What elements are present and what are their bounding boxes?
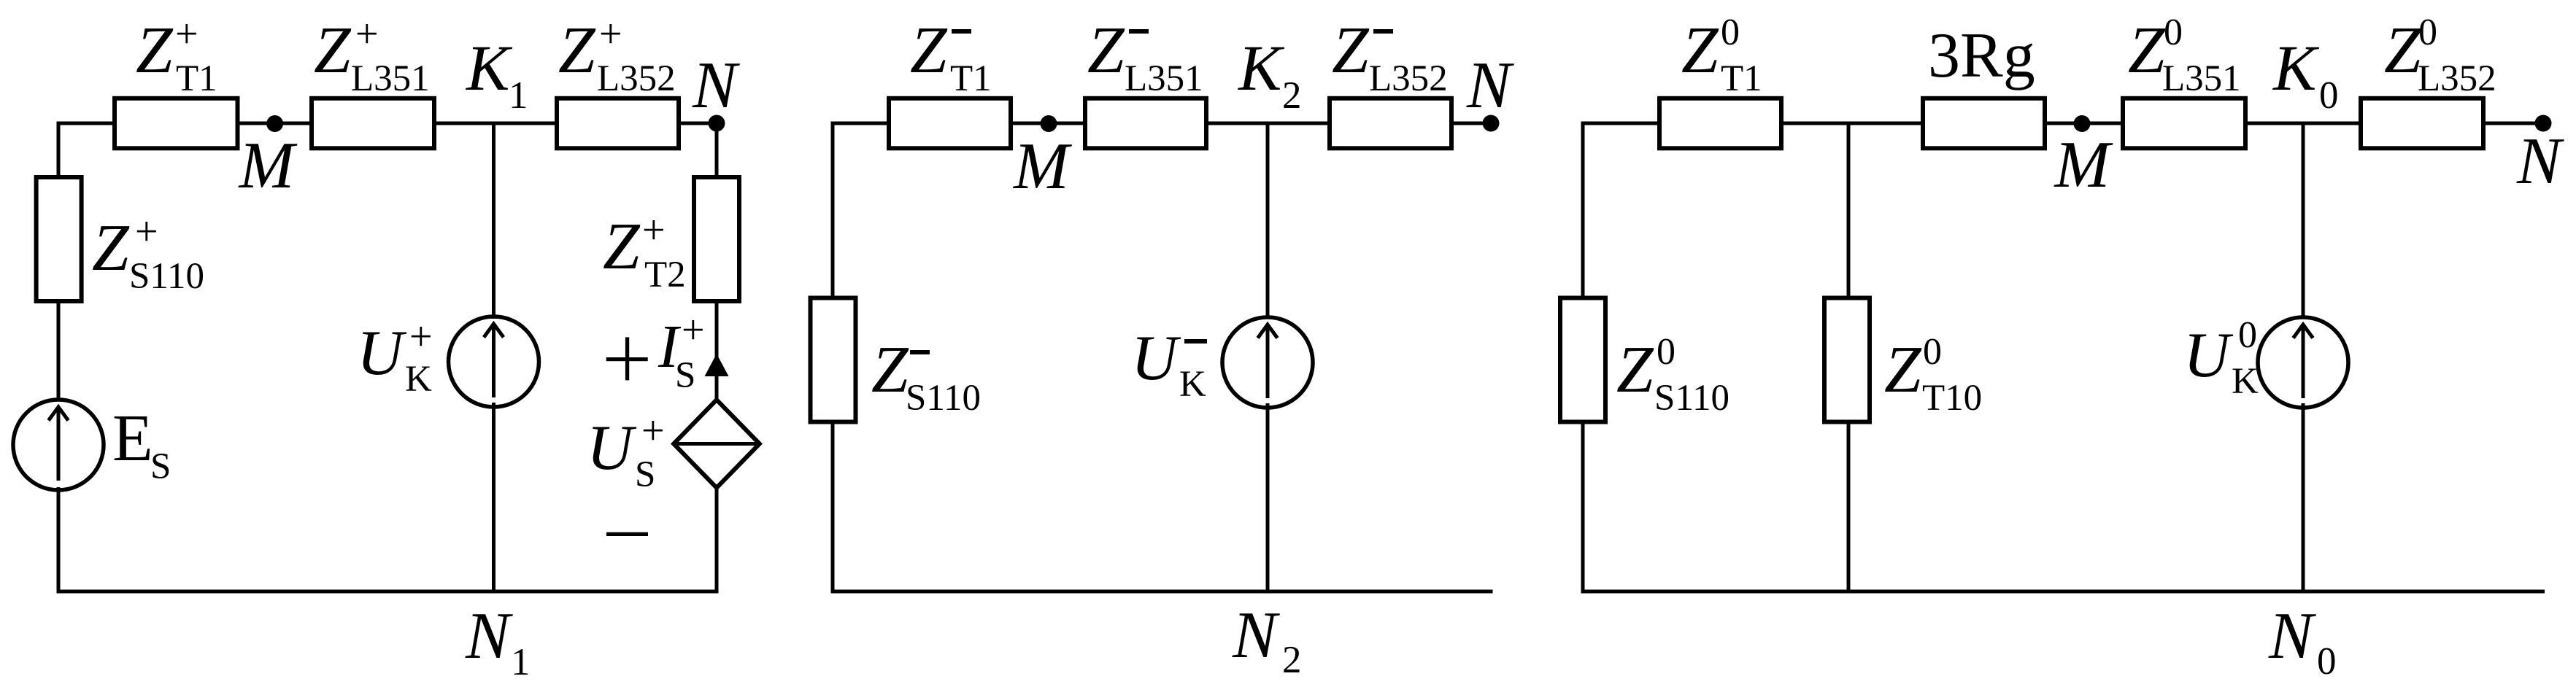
svg-text:Z: Z xyxy=(871,333,909,406)
label U_K^- xyxy=(1131,323,1207,405)
label Z_S110^0 xyxy=(1616,331,1729,419)
resistor ZL351-0 box xyxy=(2123,98,2245,149)
svg-text:Z: Z xyxy=(92,211,130,284)
label K_0 xyxy=(2272,33,2339,117)
wire US+ to bottom rail xyxy=(715,489,719,594)
wire ZS110+ to Es source xyxy=(57,302,61,401)
wire ZT10 branch vertical xyxy=(1847,123,1851,299)
resistor ZS110-0 box xyxy=(1560,298,1605,422)
svg-text:+: + xyxy=(135,209,158,255)
label N_1 reference node xyxy=(465,599,531,683)
resistor ZL351+ box xyxy=(312,98,434,149)
svg-text:L351: L351 xyxy=(2162,58,2241,99)
source UK0 circle with up arrow xyxy=(2258,317,2348,408)
svg-text:Z: Z xyxy=(603,209,641,283)
wire Es to bottom rail xyxy=(57,487,61,594)
resistor ZL351- box xyxy=(1085,98,1206,149)
svg-text:N: N xyxy=(465,599,513,672)
svg-text:K: K xyxy=(1237,33,1285,104)
label Z_S110^+ xyxy=(92,209,204,297)
svg-text:S: S xyxy=(675,355,695,396)
svg-text:1: 1 xyxy=(509,74,528,117)
label E_S xyxy=(112,401,171,487)
wire ZT1-0 to 3Rg through ZT10 junction xyxy=(1779,122,1925,125)
svg-text:S110: S110 xyxy=(129,256,204,297)
label Z_T1^0 xyxy=(1681,12,1762,99)
node M junction dot xyxy=(266,115,283,132)
wire UK0 to bottom rail xyxy=(2302,403,2305,594)
svg-text:+: + xyxy=(355,12,379,57)
wire ZS110-0 to bottom rail xyxy=(1581,422,1585,594)
svg-text:0: 0 xyxy=(2238,314,2257,356)
svg-text:3Rg: 3Rg xyxy=(1928,20,2035,91)
wire ZT1+ to ZL351+ through node M xyxy=(236,122,314,125)
svg-text:T2: T2 xyxy=(644,255,686,295)
svg-text:Z: Z xyxy=(1616,333,1654,406)
svg-text:+: + xyxy=(175,12,198,57)
svg-text:K: K xyxy=(1179,364,1206,405)
svg-text:K: K xyxy=(405,359,432,400)
label U_K^0 xyxy=(2183,314,2259,402)
svg-text:+: + xyxy=(599,12,622,57)
svg-text:U: U xyxy=(587,413,637,484)
svg-text:U: U xyxy=(2183,320,2234,391)
svg-text:0: 0 xyxy=(2164,12,2183,53)
wire K2 branch vertical xyxy=(1266,123,1270,319)
label Z_T10^0 xyxy=(1884,331,1982,419)
label minus polarity of US+ xyxy=(606,532,648,536)
label +I_S^+ current annotation xyxy=(606,308,705,396)
svg-text:Z: Z xyxy=(910,13,948,87)
svg-text:0: 0 xyxy=(1657,331,1675,373)
svg-text:L352: L352 xyxy=(597,58,676,99)
wire top rail segment (right) xyxy=(1581,122,1662,125)
svg-text:K: K xyxy=(2232,361,2259,402)
svg-text:0: 0 xyxy=(2319,74,2339,117)
wire 3Rg to node M (right) xyxy=(2043,122,2125,125)
svg-text:L352: L352 xyxy=(2418,58,2496,99)
svg-text:T10: T10 xyxy=(1922,378,1982,419)
wire ZS110- to bottom rail xyxy=(831,422,835,594)
wire ZL351-0 to ZL352-0 through node K0 xyxy=(2243,122,2363,125)
svg-text:2: 2 xyxy=(1282,74,1302,117)
node N terminal dot (left) xyxy=(709,115,725,132)
label Z_T1^+ xyxy=(136,12,217,99)
wire left-branch vertical (middle circuit) xyxy=(831,122,835,300)
label Z_L351^- xyxy=(1087,13,1203,99)
svg-text:E: E xyxy=(112,401,153,475)
svg-text:M: M xyxy=(1012,129,1072,203)
svg-text:0: 0 xyxy=(2418,12,2437,53)
label Z_T1^- xyxy=(910,13,992,99)
node M junction dot (middle) xyxy=(1041,115,1057,132)
label N_0 reference node xyxy=(2268,599,2337,683)
wire left-branch vertical (right circuit) xyxy=(1581,122,1585,300)
label K_1 xyxy=(465,33,528,117)
wire bottom rail (right circuit) xyxy=(1581,590,2545,594)
wire left-branch top vertical (Es branch) xyxy=(57,122,61,179)
svg-text:Z: Z xyxy=(558,13,596,87)
svg-text:Z: Z xyxy=(1884,333,1922,406)
label Z_L351^+ xyxy=(314,12,430,99)
svg-text:T1: T1 xyxy=(1721,58,1762,99)
wire top rail segment (middle) xyxy=(831,122,892,125)
wire ZL352+ to node N xyxy=(676,122,718,125)
wire ZT1- to ZL351- through node M xyxy=(1009,122,1087,125)
label Z_T2^+ xyxy=(603,208,686,295)
node N terminal dot (right) xyxy=(2535,115,2552,132)
svg-text:0: 0 xyxy=(1923,331,1942,373)
label Z_L352^- xyxy=(1332,13,1448,99)
resistor ZT1- box xyxy=(889,98,1011,149)
svg-text:+: + xyxy=(642,208,666,253)
label Z_L351^0 xyxy=(2128,12,2241,99)
wire bottom rail (left circuit) xyxy=(57,590,719,594)
svg-text:0: 0 xyxy=(1721,12,1740,53)
wire ZL351+ to ZL352+ through node K1 xyxy=(432,122,559,125)
svg-text:K: K xyxy=(465,33,513,104)
svg-text:1: 1 xyxy=(511,641,531,683)
svg-text:S: S xyxy=(635,454,655,495)
resistor ZT1+ box xyxy=(115,98,238,149)
resistor ZL352+ box xyxy=(557,98,679,149)
svg-text:Z: Z xyxy=(2384,13,2422,87)
resistor ZT1-0 box xyxy=(1659,98,1781,149)
label Z_L352^+ xyxy=(558,12,676,99)
svg-text:T1: T1 xyxy=(176,58,217,99)
svg-text:L352: L352 xyxy=(1369,58,1448,99)
resistor ZS110+ box xyxy=(36,177,82,301)
svg-text:N: N xyxy=(692,48,740,122)
svg-text:U: U xyxy=(1131,323,1181,394)
wire ZT2+ to US+ source with IS arrow xyxy=(715,302,719,398)
resistor 3Rg box xyxy=(1923,98,2045,149)
wire ZL351- to ZL352- through node K2 xyxy=(1204,122,1332,125)
wire UK+ to bottom rail xyxy=(492,403,495,594)
source UK+ circle with up arrow xyxy=(449,317,539,407)
label U_K^+ xyxy=(357,314,433,400)
svg-text:N: N xyxy=(1466,48,1514,122)
svg-text:N: N xyxy=(2268,599,2316,672)
svg-text:Z: Z xyxy=(2128,13,2166,87)
svg-text:N: N xyxy=(2516,124,2564,198)
dependent source US+ diamond xyxy=(674,400,760,488)
label Z_L352^0 xyxy=(2384,12,2496,99)
svg-text:Z: Z xyxy=(136,13,174,87)
svg-text:S110: S110 xyxy=(906,378,981,419)
wire K0 branch vertical xyxy=(2302,123,2305,319)
source ES circle with up arrow xyxy=(13,400,104,490)
svg-text:+: + xyxy=(641,408,665,454)
source UK- circle with up arrow xyxy=(1222,317,1313,408)
svg-text:0: 0 xyxy=(2317,640,2337,683)
label Z_S110^- xyxy=(871,333,981,419)
svg-text:M: M xyxy=(2054,128,2113,201)
arrowhead I_S current direction xyxy=(705,354,729,376)
svg-text:Z: Z xyxy=(1087,13,1125,87)
svg-text:K: K xyxy=(2272,33,2320,104)
svg-text:+: + xyxy=(409,314,433,360)
svg-text:Z: Z xyxy=(1332,13,1370,87)
resistor ZT2+ box xyxy=(694,177,739,301)
svg-text:S: S xyxy=(150,446,171,487)
svg-text:Z: Z xyxy=(314,13,352,87)
svg-text:T1: T1 xyxy=(950,58,992,99)
svg-text:M: M xyxy=(238,128,298,202)
wire N down to ZT2+ xyxy=(715,123,719,178)
svg-text:2: 2 xyxy=(1282,639,1302,681)
svg-text:L351: L351 xyxy=(351,58,430,99)
label U_S^+ xyxy=(587,408,665,495)
wire ZT10 to bottom rail xyxy=(1847,422,1851,594)
wire ZL352- to node N (middle) xyxy=(1449,122,1492,125)
svg-text:S110: S110 xyxy=(1654,378,1729,419)
label K_2 xyxy=(1237,33,1302,117)
wire ZL352-0 to node N (right) xyxy=(2481,122,2545,125)
svg-text:+: + xyxy=(682,308,705,353)
wire K1 branch vertical xyxy=(492,123,495,319)
resistor ZS110- box xyxy=(811,298,856,422)
wire UK- to bottom rail xyxy=(1266,403,1270,594)
label N_2 reference node xyxy=(1232,598,1302,681)
node M junction dot (right) xyxy=(2074,115,2091,132)
svg-text:N: N xyxy=(1232,598,1280,672)
wire top rail segment 1 xyxy=(57,122,117,125)
svg-text:L351: L351 xyxy=(1125,58,1203,99)
svg-text:U: U xyxy=(357,318,407,389)
resistor ZL352- box xyxy=(1330,98,1451,149)
node N terminal dot (middle) xyxy=(1483,115,1500,132)
wire bottom rail (middle circuit) xyxy=(831,590,1493,594)
resistor ZL352-0 box xyxy=(2361,98,2483,149)
resistor ZT10-0 box xyxy=(1824,298,1870,422)
svg-text:Z: Z xyxy=(1681,13,1719,87)
